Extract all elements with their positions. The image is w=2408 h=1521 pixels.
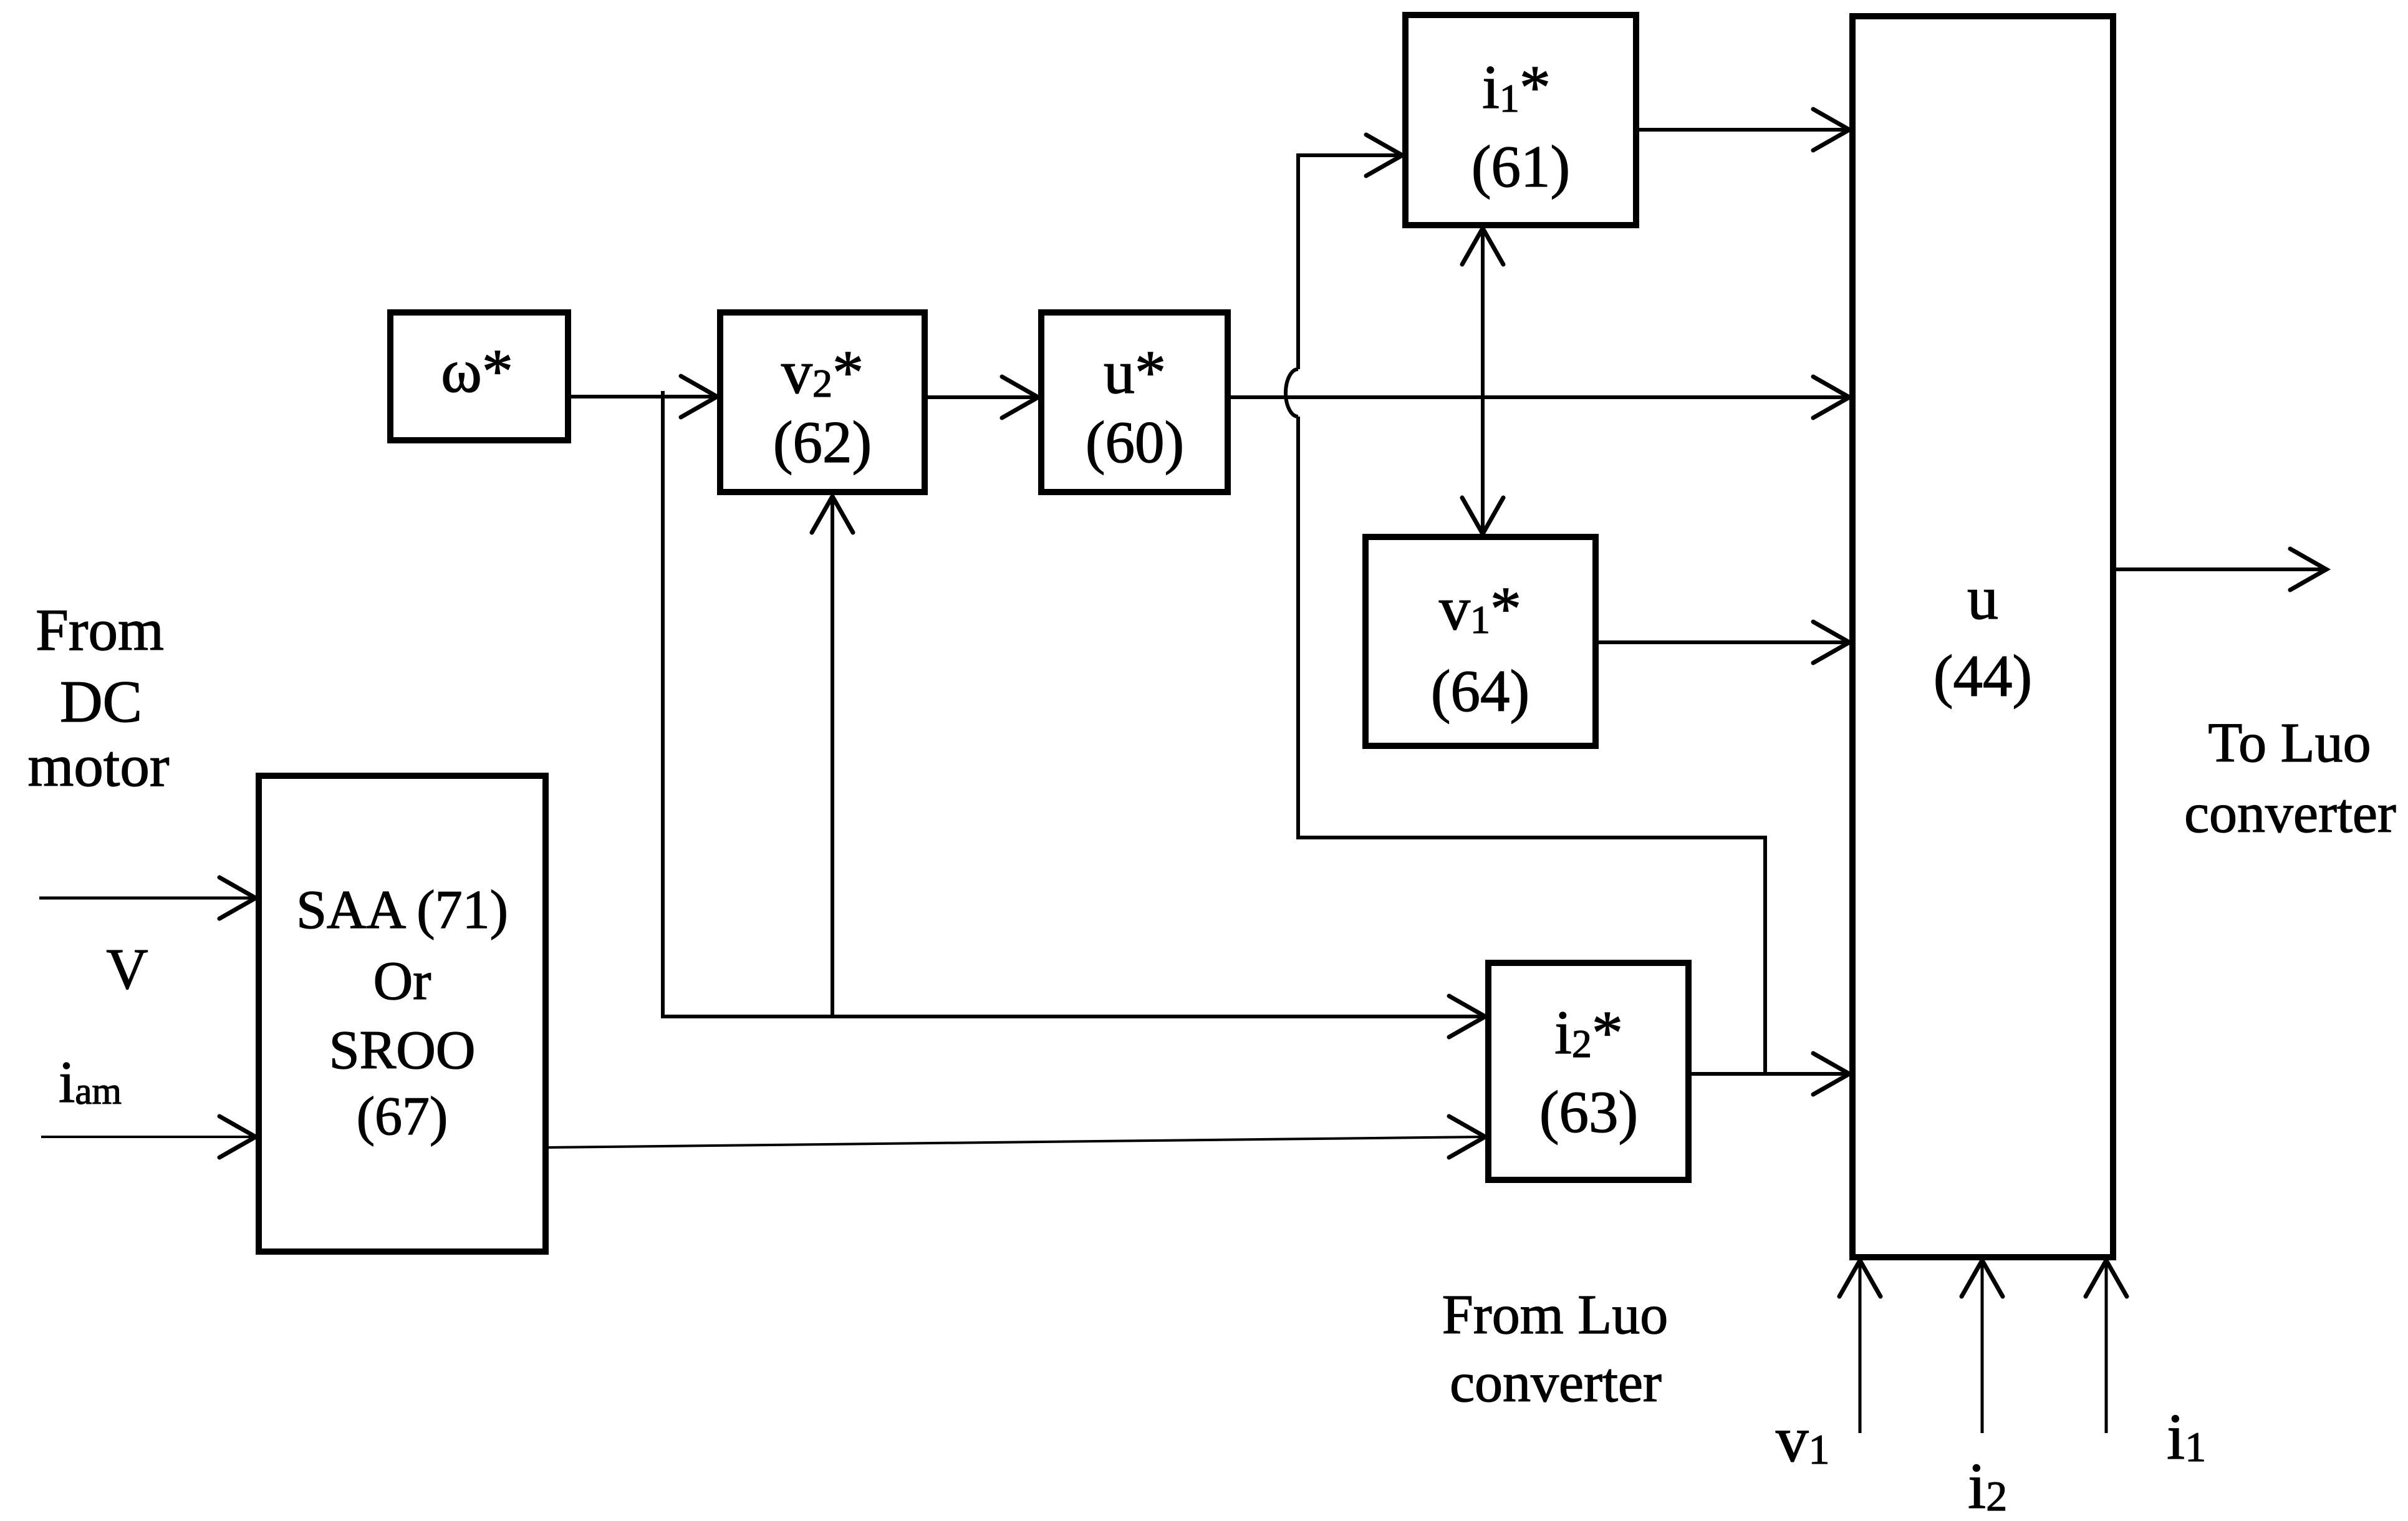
svg-text:SAA (71): SAA (71) — [296, 880, 508, 940]
svg-text:From: From — [36, 597, 164, 663]
svg-text:u: u — [1967, 563, 1998, 632]
svg-text:From Luo: From Luo — [1442, 1284, 1669, 1346]
svg-text:DC: DC — [60, 669, 142, 735]
svg-text:(64): (64) — [1431, 658, 1529, 724]
svg-text:(63): (63) — [1539, 1079, 1638, 1145]
svg-text:(60): (60) — [1086, 409, 1184, 475]
svg-text:ω*: ω* — [441, 336, 513, 405]
svg-text:converter: converter — [1450, 1352, 1662, 1414]
svg-text:motor: motor — [28, 733, 170, 799]
svg-text:u*: u* — [1104, 337, 1166, 407]
svg-text:(62): (62) — [773, 409, 872, 475]
svg-text:SROO: SROO — [329, 1020, 476, 1081]
svg-text:(44): (44) — [1934, 643, 2032, 709]
svg-text:V: V — [106, 937, 148, 1002]
svg-text:Or: Or — [373, 951, 431, 1012]
svg-text:(67): (67) — [357, 1086, 448, 1147]
svg-text:To Luo: To Luo — [2208, 712, 2371, 774]
svg-text:(61): (61) — [1471, 133, 1570, 200]
svg-text:converter: converter — [2184, 783, 2396, 844]
